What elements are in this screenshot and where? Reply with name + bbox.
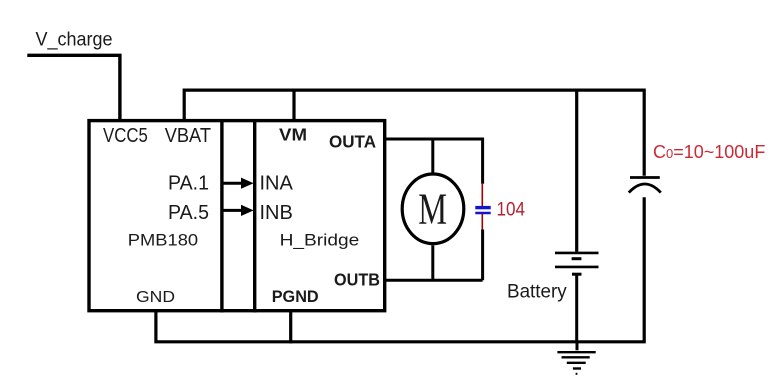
ground symbol bar 1 <box>557 351 595 353</box>
wire VM stub <box>292 89 295 121</box>
battery BT1 plate 2 short <box>572 257 582 260</box>
ground symbol dot <box>576 373 578 375</box>
wire OUTB to cap branch <box>385 279 483 282</box>
ground symbol stub <box>576 342 579 351</box>
wire motor top stub <box>431 139 434 174</box>
wire battery negative to ground rail <box>575 274 578 342</box>
svg-text:PGND: PGND <box>272 287 319 306</box>
signal arrow PA.5 to INB <box>224 205 254 216</box>
IC module box (PMB180 + H_Bridge) <box>89 121 385 311</box>
svg-text:H_Bridge: H_Bridge <box>280 232 360 250</box>
wire red lead bottom of capacitor 104 <box>481 214 483 230</box>
svg-text:Battery: Battery <box>507 280 567 302</box>
wire GND drop and bottom ground rail and C0 bottom lead <box>156 197 644 341</box>
svg-text:PMB180: PMB180 <box>128 232 198 250</box>
capacitor C? plate top (blue) <box>475 206 490 209</box>
internal divider right <box>253 119 256 313</box>
ground symbol bar 4 <box>573 367 581 369</box>
wire PGND drop <box>289 309 292 343</box>
motor M <box>402 174 464 244</box>
svg-text:VCC5: VCC5 <box>103 125 148 147</box>
svg-text:OUTB: OUTB <box>334 270 380 290</box>
wire top rail VBAT to C0 <box>184 90 644 176</box>
svg-text:104: 104 <box>497 199 526 221</box>
ground symbol bar 2 <box>562 356 590 358</box>
svg-text:INA: INA <box>260 172 294 194</box>
wire motor bottom stub <box>431 245 434 281</box>
svg-text:GND: GND <box>136 289 175 306</box>
wire OUTA to motor/cap branch <box>385 139 483 184</box>
svg-text:V_charge: V_charge <box>36 29 113 50</box>
svg-text:PA.5: PA.5 <box>168 202 209 224</box>
ground symbol bar 3 <box>567 362 586 364</box>
battery BT1 plate 3 long <box>555 266 599 269</box>
wire red lead top of capacitor 104 <box>481 183 483 207</box>
svg-text:INB: INB <box>260 202 293 224</box>
capacitor C? plate bottom (blue) <box>475 212 490 215</box>
wire cap 104 to OUTB wire <box>481 230 484 281</box>
wire V_charge to VCC5 pin <box>27 55 120 120</box>
svg-text:VBAT: VBAT <box>165 125 211 147</box>
capacitor C0 plate curved <box>629 184 661 193</box>
svg-text:PA.1: PA.1 <box>168 172 209 194</box>
svg-text:OUTA: OUTA <box>329 131 376 151</box>
wire top rail to battery <box>575 89 578 252</box>
battery BT1 plate 4 short <box>572 273 582 276</box>
signal arrow PA.1 to INA <box>224 178 254 189</box>
internal divider left <box>220 119 223 313</box>
svg-text:VM: VM <box>279 125 307 145</box>
battery BT1 plate 1 long <box>555 252 599 255</box>
capacitor C0 plate flat <box>630 176 660 179</box>
svg-text:M: M <box>418 184 447 233</box>
